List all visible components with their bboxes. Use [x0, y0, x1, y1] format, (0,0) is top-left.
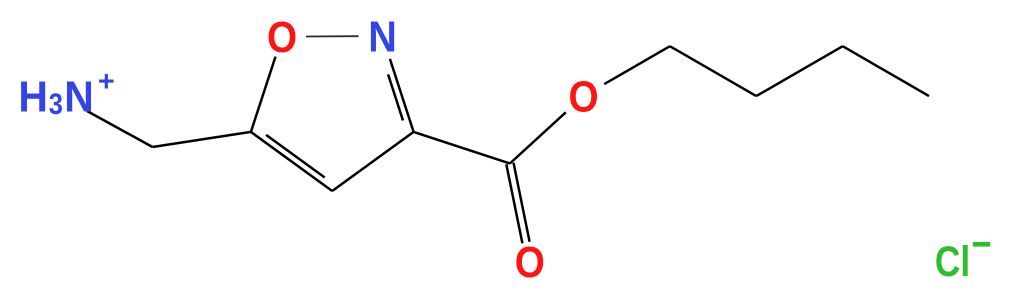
svg-text:Cl: Cl — [935, 238, 970, 286]
wire: double bond N2=C3 — [390, 59, 414, 132]
node chloride minus charge — [973, 242, 990, 247]
svg-text:O: O — [267, 12, 297, 62]
wire: bond H3N+ to CH2 — [87, 111, 153, 147]
svg-text:+: + — [98, 66, 115, 98]
wire: bond ring O1 to N2 — [306, 35, 359, 37]
wire: bond ester O to butyl C1 — [604, 46, 670, 84]
svg-text:N: N — [64, 73, 94, 122]
svg-text:3: 3 — [49, 87, 63, 120]
wire: bond C3 to C4 — [332, 132, 413, 191]
wire: bond C5 to ring O1 — [251, 57, 276, 132]
wire: bond CH2 to ring C5 — [153, 132, 251, 147]
wire: bond butyl C3-C4 — [843, 46, 929, 96]
svg-text:N: N — [368, 12, 397, 61]
wire: double bond C=O carbonyl — [506, 164, 522, 243]
wire: bond butyl C1-C2 — [670, 46, 756, 96]
wire: double bond C4=C5 — [251, 132, 332, 191]
svg-text:O: O — [515, 236, 545, 286]
svg-text:H: H — [18, 73, 48, 122]
svg-text:O: O — [568, 71, 598, 121]
wire: bond butyl C2-C3 — [756, 46, 842, 96]
wire: bond carbonyl C to ester O — [510, 112, 566, 163]
wire: bond C3 to carbonyl C — [414, 132, 510, 164]
